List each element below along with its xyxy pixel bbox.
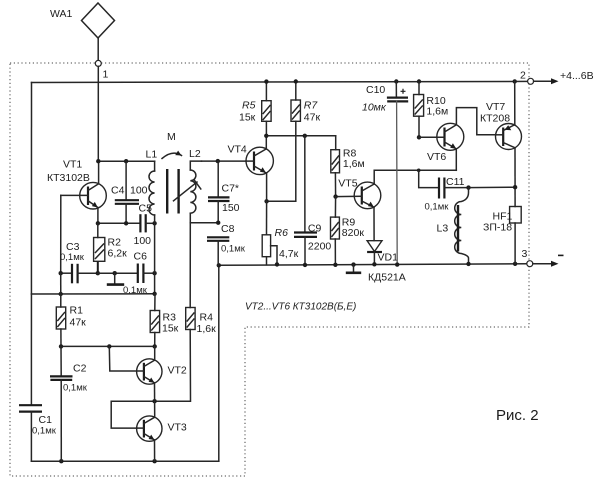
capacitor C4	[111, 161, 148, 223]
resistor R9	[331, 197, 365, 267]
svg-text:VT2...VT6 КТ3102В(Б,Е): VT2...VT6 КТ3102В(Б,Е)	[245, 302, 356, 313]
wire R4 bottom elbow	[155, 330, 191, 402]
node 3	[513, 248, 533, 267]
svg-text:КТ208: КТ208	[480, 113, 510, 125]
svg-text:VT6: VT6	[427, 151, 446, 163]
svg-text:1,6к: 1,6к	[197, 323, 217, 335]
wire VT7 emitter to rail	[514, 81, 516, 124]
inductor L3	[437, 188, 471, 266]
sound emitter HF1	[483, 207, 521, 264]
capacitor C5	[134, 203, 155, 248]
wire VT5 emitter down	[373, 207, 375, 240]
svg-text:C4: C4	[111, 185, 125, 197]
svg-text:100: 100	[134, 235, 152, 247]
svg-text:0,1мк: 0,1мк	[425, 202, 450, 213]
wire C1 to bottom rail	[30, 412, 32, 462]
svg-text:10мк: 10мк	[362, 102, 387, 114]
capacitor C6	[123, 251, 155, 297]
antenna WA1	[50, 3, 115, 38]
variable inductance arrow	[174, 180, 201, 201]
svg-text:C11: C11	[446, 176, 465, 188]
svg-text:R4: R4	[200, 312, 214, 324]
node junction x155 y273	[152, 271, 156, 275]
svg-text:+4...6В: +4...6В	[560, 70, 594, 82]
transistor VT5	[333, 178, 380, 209]
svg-text:0,1мк: 0,1мк	[221, 244, 246, 255]
svg-text:0,1мк: 0,1мк	[32, 426, 57, 437]
resistor R5	[239, 79, 271, 135]
chassis ground symbol left	[107, 271, 124, 285]
svg-text:WA1: WA1	[50, 8, 73, 20]
svg-text:2200: 2200	[308, 241, 332, 253]
svg-text:C9: C9	[308, 223, 322, 235]
inductor L1	[146, 149, 158, 216]
svg-text:0,1мк: 0,1мк	[60, 252, 85, 263]
svg-text:C1: C1	[39, 414, 53, 426]
svg-text:820к: 820к	[342, 227, 365, 239]
node C11 stub junction	[417, 169, 421, 173]
node line y346	[59, 344, 157, 348]
wire L2 top to VT4 base	[202, 160, 247, 162]
svg-text:VT5: VT5	[338, 178, 357, 190]
inductor L2	[189, 148, 202, 223]
wire minus rail	[217, 263, 527, 267]
node VT4 emitter junction	[264, 199, 268, 203]
svg-text:150: 150	[222, 202, 240, 214]
svg-text:ЗП-18: ЗП-18	[483, 222, 512, 234]
diode VD1	[367, 241, 398, 267]
capacitor C10	[362, 79, 408, 113]
svg-text:3: 3	[522, 248, 528, 260]
svg-text:VD1: VD1	[378, 252, 399, 264]
capacitor C1	[19, 405, 57, 436]
svg-text:VT4: VT4	[228, 144, 247, 156]
svg-text:R7: R7	[304, 100, 319, 112]
svg-text:47к: 47к	[70, 317, 87, 329]
svg-text:R1: R1	[70, 305, 84, 317]
svg-text:VT3: VT3	[168, 422, 187, 434]
svg-text:15к: 15к	[162, 323, 179, 335]
wire VT6 emitter down to y170	[455, 149, 457, 170]
wire +supply arrow	[534, 70, 594, 84]
inductor L3 core bar	[457, 205, 459, 252]
wire rail y294	[31, 292, 156, 297]
svg-text:0,1мк: 0,1мк	[63, 383, 88, 394]
capacitor C9	[294, 136, 331, 267]
wire bottom rail	[31, 459, 218, 463]
wire left vertical line	[30, 83, 32, 405]
svg-text:4,7к: 4,7к	[279, 248, 299, 260]
resistor R4	[186, 308, 216, 336]
transistor VT1	[47, 159, 106, 210]
wire VT1 emitter down	[97, 208, 99, 224]
svg-text:6,2к: 6,2к	[108, 248, 128, 260]
wire L2 bottom down to R4	[189, 223, 191, 308]
transistor VT7	[480, 101, 522, 150]
svg-text:L3: L3	[437, 223, 449, 235]
wire right riser of lower section	[218, 265, 220, 461]
wire VT3 emitter down	[154, 440, 156, 461]
wire C10 down to minus rail	[395, 101, 399, 266]
wire VT4 emitter down	[266, 173, 268, 201]
wire VT2 collector up	[154, 346, 156, 360]
resistor R2	[94, 223, 127, 273]
wire node to C6	[98, 272, 138, 274]
coupling arrow M	[162, 131, 182, 159]
transformer core	[167, 169, 178, 214]
wire C11 node to VT7 collector lead	[469, 186, 516, 188]
svg-text:47к: 47к	[304, 112, 321, 124]
svg-text:L2: L2	[189, 148, 201, 160]
svg-text:2: 2	[520, 70, 526, 82]
svg-text:100: 100	[130, 185, 148, 197]
svg-text:C7*: C7*	[222, 183, 240, 195]
capacitor C7*	[208, 161, 240, 223]
wire VT2 emitter down	[154, 383, 156, 401]
node emitter line y223	[96, 221, 140, 225]
svg-text:C8: C8	[221, 223, 235, 235]
wire R7 bottom elbow to VT4 emitter node	[267, 121, 296, 201]
svg-text:КТ3102В: КТ3102В	[47, 172, 90, 184]
svg-text:КД521А: КД521А	[368, 272, 406, 284]
wire antenna to node 1	[97, 38, 99, 60]
resistor R7	[291, 79, 320, 123]
node L3 top junction	[466, 185, 470, 189]
svg-text:L1: L1	[146, 149, 158, 161]
wire VT5 collector up and across	[374, 170, 456, 184]
wire top supply rail	[32, 81, 531, 82]
svg-text:C6: C6	[134, 251, 148, 263]
svg-text:VT7: VT7	[486, 101, 505, 113]
transistor VT6	[419, 123, 464, 163]
svg-text:R5: R5	[242, 100, 256, 112]
chassis ground symbol middle	[346, 262, 406, 283]
resistor R3	[150, 294, 178, 347]
svg-text:VT2: VT2	[168, 365, 187, 377]
svg-text:R6: R6	[275, 227, 289, 239]
svg-text:1,6м: 1,6м	[343, 158, 365, 170]
svg-text:1,6м: 1,6м	[426, 106, 448, 118]
svg-text:VT1: VT1	[63, 159, 82, 171]
capacitor C3	[59, 241, 98, 283]
svg-text:1: 1	[103, 69, 109, 81]
node R2 bottom junction	[96, 271, 100, 275]
svg-text:C2: C2	[73, 363, 87, 375]
wire VT1 base down	[60, 195, 62, 273]
node line y401	[111, 399, 157, 428]
wire VT3 collector up	[154, 401, 156, 417]
transistor VT4	[228, 144, 274, 175]
node C7 junction	[216, 159, 220, 163]
svg-text:C10: C10	[366, 84, 385, 96]
node 2	[513, 70, 534, 85]
node 1	[95, 60, 108, 80]
svg-text:15к: 15к	[239, 112, 256, 124]
svg-text:M: M	[167, 131, 176, 143]
transistor VT3	[137, 416, 187, 441]
wire R6 bottom to rail	[266, 257, 268, 265]
capacitor C11	[419, 170, 469, 212]
capacitor C2	[50, 346, 88, 461]
transistor VT2	[109, 346, 187, 384]
svg-text:Рис. 2: Рис. 2	[496, 407, 539, 424]
wire -supply arrow	[533, 255, 564, 267]
node collector line y161	[96, 159, 155, 163]
wire VT6 collector to VT7 base	[456, 108, 495, 135]
wire base column x61 down	[60, 273, 62, 307]
wire L2 bottom link	[190, 221, 220, 225]
node junction right of C5	[152, 221, 156, 225]
resistor R6	[262, 201, 298, 266]
resistor R8	[331, 136, 365, 197]
wire node 1 down to collector node	[97, 66, 99, 161]
wire vertical x155 L1-bottom to rail294	[154, 215, 156, 294]
wire VT7 collector down	[513, 148, 517, 207]
capacitor C8	[207, 223, 246, 265]
wire VT1 collector up	[98, 161, 100, 184]
resistor R1	[56, 305, 86, 347]
wire VT4 collector up	[265, 136, 267, 149]
node collector line y136	[264, 134, 336, 138]
dashed enclosure border	[10, 63, 529, 476]
resistor R10	[414, 79, 449, 139]
